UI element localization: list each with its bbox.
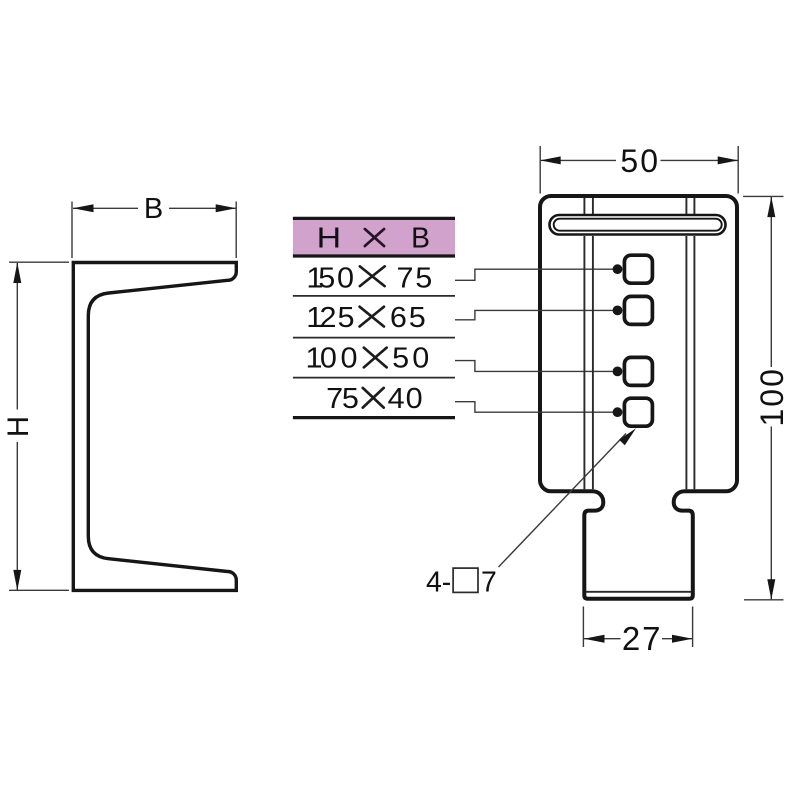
svg-text:H: H <box>317 221 342 253</box>
dimension 50 line <box>541 159 616 161</box>
svg-text:27: 27 <box>622 620 663 657</box>
svg-text:7: 7 <box>396 262 413 294</box>
dimension H extension lines <box>9 261 69 263</box>
dimension 100 arrow bottom <box>767 579 775 600</box>
table header band <box>293 220 455 256</box>
dimension 27 arrow right <box>672 635 693 643</box>
callout 4-square-7 leader line <box>499 434 627 568</box>
leader row1 <box>455 269 613 280</box>
bend line left inner <box>592 198 594 489</box>
svg-text:7: 7 <box>481 567 497 599</box>
callout square glyph <box>453 568 478 592</box>
svg-text:5: 5 <box>415 262 432 294</box>
bend line right inner <box>685 198 687 489</box>
table rule 4 <box>293 377 455 379</box>
dimension 27 extension lines <box>582 607 584 648</box>
hole square 4 <box>624 398 652 426</box>
dimension 50 arrow left <box>540 156 561 164</box>
dot 1 <box>613 264 623 274</box>
channel section outline <box>73 263 236 591</box>
svg-text:B: B <box>144 193 163 225</box>
svg-text:0: 0 <box>320 343 337 375</box>
slot inner <box>554 219 722 231</box>
dimension H arrow bottom <box>13 570 21 591</box>
table rule 2 <box>293 295 455 297</box>
svg-text:0: 0 <box>340 343 357 375</box>
leader row2 <box>455 310 613 319</box>
svg-text:H: H <box>2 416 35 437</box>
svg-text:5: 5 <box>318 262 335 294</box>
table row 2 text 125x65 <box>306 302 426 334</box>
dot 2 <box>613 306 623 316</box>
leader row3 <box>455 361 613 372</box>
dimension 50 extension lines <box>539 146 541 194</box>
callout arrowhead <box>619 428 636 445</box>
svg-text:50: 50 <box>620 143 660 179</box>
svg-text:5: 5 <box>392 343 409 375</box>
dimension H line <box>16 263 18 410</box>
dimension B arrow left <box>73 204 94 212</box>
svg-text:4-: 4- <box>426 567 451 599</box>
bend line left outer <box>583 198 585 489</box>
dimension B line <box>73 207 138 209</box>
table row 3 text 100x50 <box>305 343 429 375</box>
dimension H arrow top <box>13 263 21 284</box>
dot 4 <box>613 407 623 417</box>
dimension 100 extension lines <box>743 195 784 197</box>
slot outer <box>550 215 726 235</box>
hole square 3 <box>624 357 652 385</box>
table row 4 text 75x40 <box>326 383 423 415</box>
table header top rule <box>293 217 455 220</box>
table bottom rule <box>293 416 455 419</box>
dot 3 <box>613 367 623 377</box>
dimension 100 line <box>770 197 772 367</box>
svg-text:0: 0 <box>337 262 354 294</box>
svg-text:6: 6 <box>390 302 407 334</box>
svg-text:4: 4 <box>388 383 405 415</box>
tab hem line <box>586 591 691 593</box>
hole square 2 <box>624 296 652 324</box>
svg-text:100: 100 <box>754 367 790 426</box>
svg-text:7: 7 <box>326 383 343 415</box>
dimension 100 arrow top <box>767 197 775 218</box>
svg-text:2: 2 <box>319 302 336 334</box>
dimension B arrow right <box>216 204 237 212</box>
bend line right outer <box>693 198 695 489</box>
dimension 50 arrow right <box>718 156 739 164</box>
table row 1 text 150x75 <box>306 262 432 294</box>
dimension 27 line <box>584 638 621 640</box>
bracket outline <box>540 196 737 599</box>
leader row4 <box>455 402 613 413</box>
svg-text:0: 0 <box>412 343 429 375</box>
svg-text:5: 5 <box>342 383 359 415</box>
svg-text:5: 5 <box>409 302 426 334</box>
svg-text:B: B <box>411 221 430 253</box>
table header bottom rule <box>293 254 455 257</box>
svg-text:0: 0 <box>406 383 423 415</box>
table rule 3 <box>293 337 455 339</box>
dimension B extension lines <box>71 202 73 259</box>
hole square 1 <box>624 255 652 283</box>
svg-text:5: 5 <box>337 302 354 334</box>
dimension 27 arrow left <box>584 635 605 643</box>
